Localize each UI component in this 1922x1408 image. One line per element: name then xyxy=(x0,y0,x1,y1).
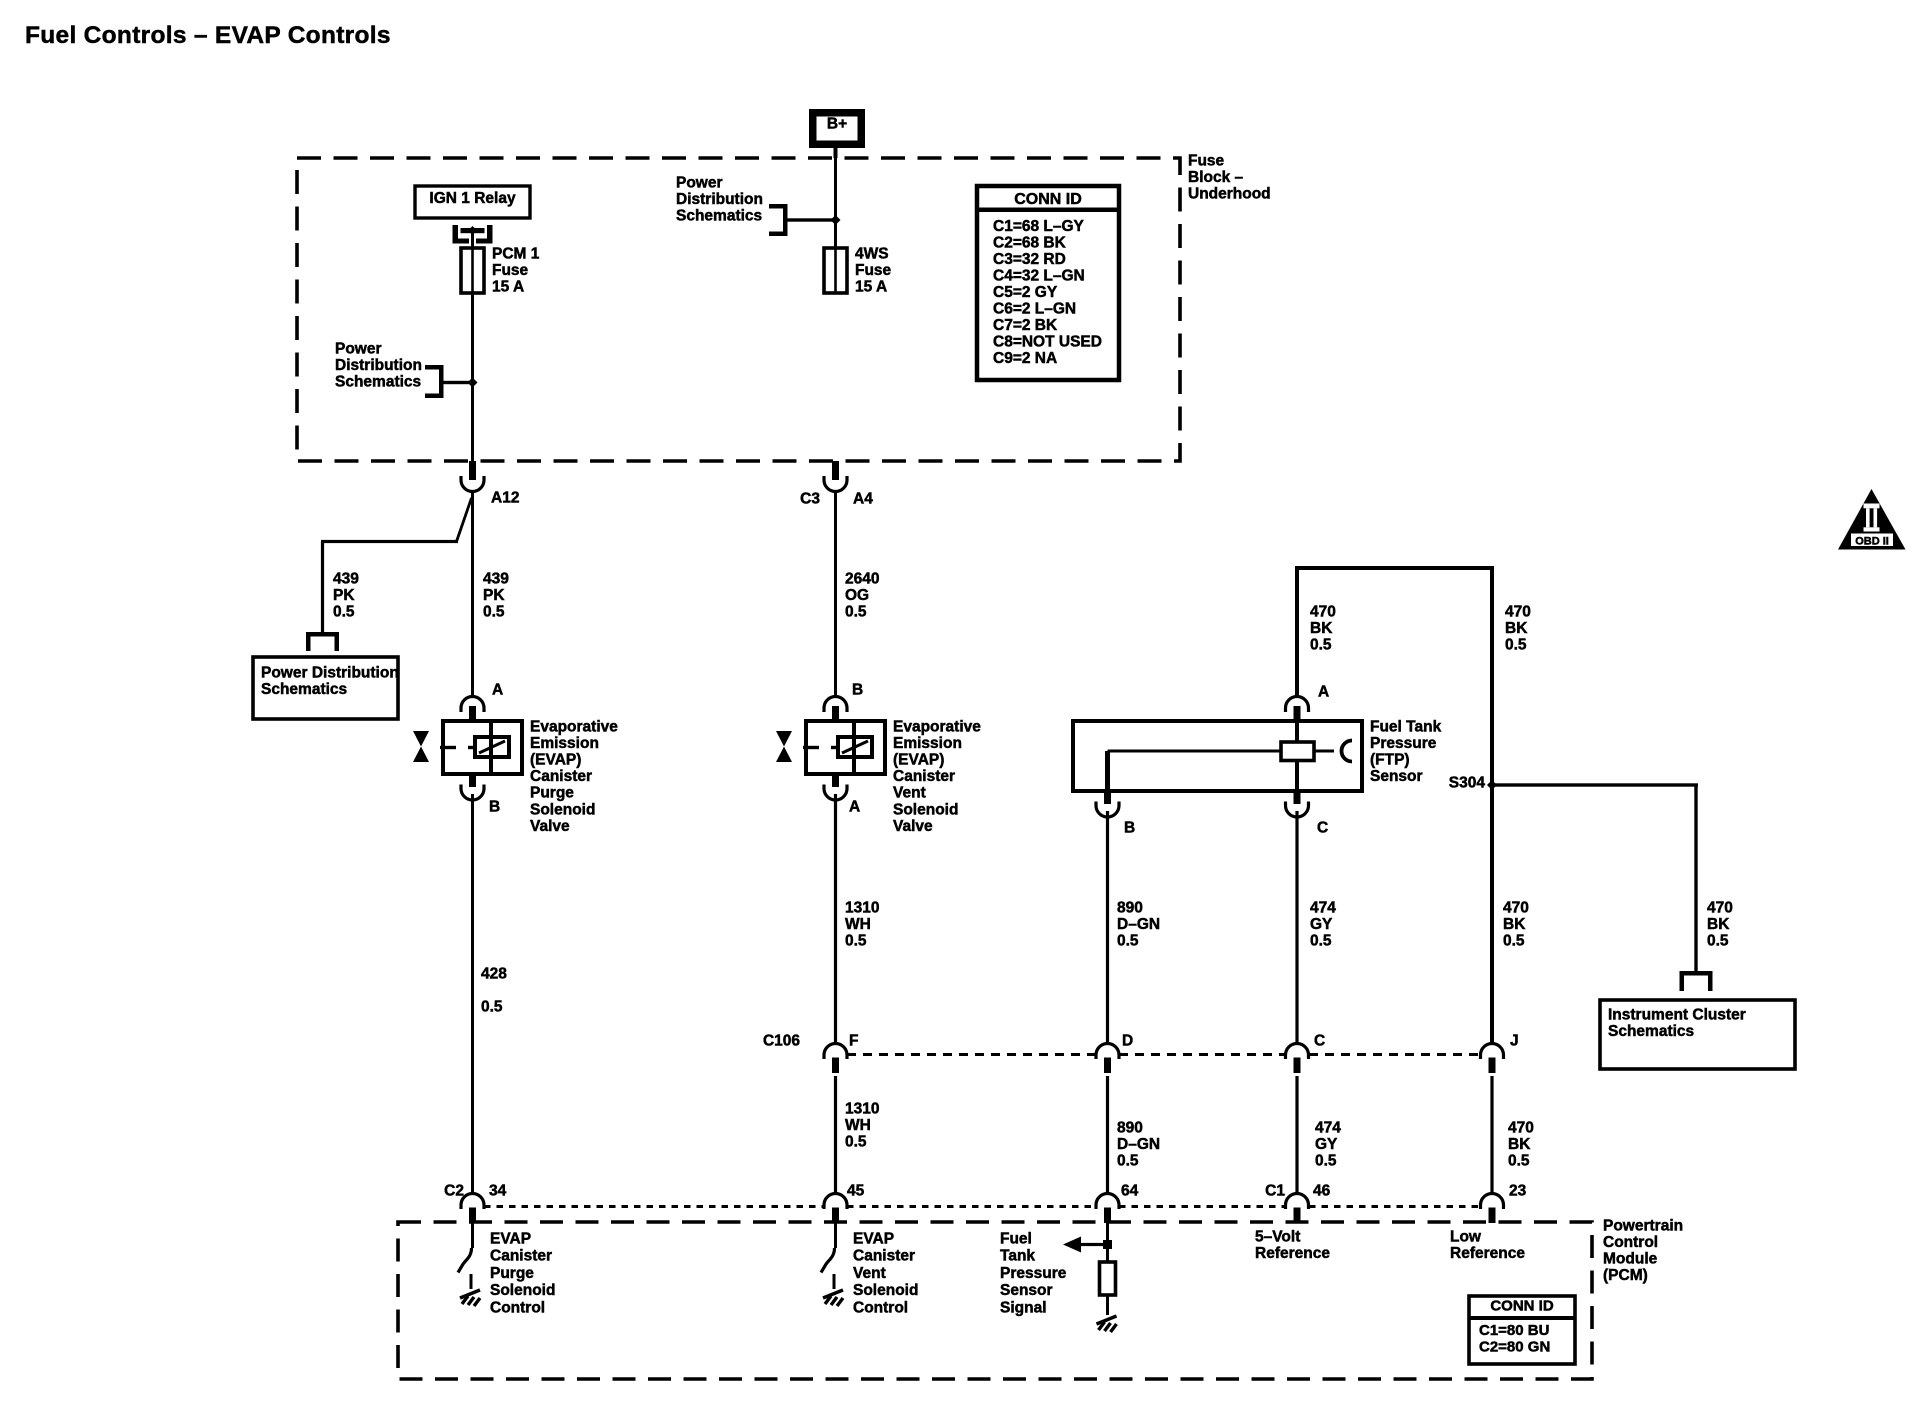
svg-text:64: 64 xyxy=(1121,1182,1139,1199)
svg-text:C8=NOT USED: C8=NOT USED xyxy=(993,334,1102,351)
svg-text:Distribution: Distribution xyxy=(676,191,763,208)
svg-text:C9=2 NA: C9=2 NA xyxy=(993,350,1057,367)
svg-text:C2=68 BK: C2=68 BK xyxy=(993,234,1067,251)
svg-text:Power: Power xyxy=(335,340,382,357)
svg-text:S304: S304 xyxy=(1449,774,1486,791)
svg-text:Solenoid: Solenoid xyxy=(530,801,595,818)
svg-text:D–GN: D–GN xyxy=(1117,1136,1160,1153)
svg-text:Evaporative: Evaporative xyxy=(530,718,618,735)
svg-text:Solenoid: Solenoid xyxy=(893,801,958,818)
svg-text:C2: C2 xyxy=(444,1182,464,1199)
svg-text:Distribution: Distribution xyxy=(335,357,422,374)
svg-text:1310: 1310 xyxy=(845,899,879,916)
svg-text:474: 474 xyxy=(1315,1119,1341,1136)
svg-text:B: B xyxy=(852,681,863,698)
svg-text:C3: C3 xyxy=(800,490,820,507)
svg-text:890: 890 xyxy=(1117,1119,1143,1136)
svg-text:Fuel: Fuel xyxy=(1000,1230,1032,1247)
svg-text:Emission: Emission xyxy=(530,735,599,752)
svg-text:C6=2 L–GN: C6=2 L–GN xyxy=(993,301,1076,318)
svg-text:C1=68 L–GY: C1=68 L–GY xyxy=(993,218,1085,235)
svg-text:(EVAP): (EVAP) xyxy=(893,752,944,769)
svg-text:PK: PK xyxy=(333,587,355,604)
svg-text:Canister: Canister xyxy=(490,1248,552,1265)
svg-text:470: 470 xyxy=(1505,603,1531,620)
svg-text:0.5: 0.5 xyxy=(1310,932,1332,949)
svg-text:5–Volt: 5–Volt xyxy=(1255,1228,1300,1245)
svg-text:Valve: Valve xyxy=(530,818,570,835)
svg-text:0.5: 0.5 xyxy=(1505,636,1527,653)
svg-text:Reference: Reference xyxy=(1255,1245,1330,1262)
svg-text:C5=2 GY: C5=2 GY xyxy=(993,284,1058,301)
svg-text:Purge: Purge xyxy=(530,785,574,802)
svg-text:Vent: Vent xyxy=(853,1265,886,1282)
svg-text:0.5: 0.5 xyxy=(1503,932,1525,949)
svg-text:0.5: 0.5 xyxy=(481,998,503,1015)
svg-text:46: 46 xyxy=(1313,1182,1331,1199)
svg-text:Schematics: Schematics xyxy=(676,207,762,224)
svg-text:BK: BK xyxy=(1503,916,1526,933)
svg-text:439: 439 xyxy=(483,570,509,587)
svg-text:45: 45 xyxy=(847,1182,865,1199)
svg-text:D–GN: D–GN xyxy=(1117,916,1160,933)
svg-text:0.5: 0.5 xyxy=(1310,636,1332,653)
svg-text:BK: BK xyxy=(1310,620,1333,637)
svg-text:GY: GY xyxy=(1310,916,1333,933)
svg-text:474: 474 xyxy=(1310,899,1336,916)
svg-text:Control: Control xyxy=(490,1300,545,1317)
svg-text:0.5: 0.5 xyxy=(483,603,505,620)
svg-text:0.5: 0.5 xyxy=(1315,1152,1337,1169)
svg-text:PCM 1: PCM 1 xyxy=(492,245,540,262)
svg-text:EVAP: EVAP xyxy=(853,1230,894,1247)
svg-text:B: B xyxy=(489,798,500,815)
svg-text:B+: B+ xyxy=(827,115,847,132)
svg-text:0.5: 0.5 xyxy=(1117,932,1139,949)
svg-text:Powertrain: Powertrain xyxy=(1603,1217,1683,1234)
svg-text:BK: BK xyxy=(1508,1136,1531,1153)
svg-text:Fuel Controls – EVAP Controls: Fuel Controls – EVAP Controls xyxy=(25,22,391,49)
svg-text:0.5: 0.5 xyxy=(845,932,867,949)
svg-text:Schematics: Schematics xyxy=(1608,1023,1694,1040)
svg-text:0.5: 0.5 xyxy=(845,603,867,620)
svg-text:WH: WH xyxy=(845,1117,871,1134)
svg-text:428: 428 xyxy=(481,965,507,982)
svg-text:EVAP: EVAP xyxy=(490,1230,531,1247)
svg-text:4WS: 4WS xyxy=(855,245,889,262)
svg-text:OG: OG xyxy=(845,587,869,604)
svg-text:C3=32 RD: C3=32 RD xyxy=(993,251,1066,268)
svg-text:Tank: Tank xyxy=(1000,1248,1035,1265)
svg-text:470: 470 xyxy=(1310,603,1336,620)
svg-text:(EVAP): (EVAP) xyxy=(530,752,581,769)
svg-text:CONN ID: CONN ID xyxy=(1490,1298,1554,1315)
svg-text:Fuse: Fuse xyxy=(492,262,529,279)
svg-text:0.5: 0.5 xyxy=(845,1133,867,1150)
svg-text:C1=80 BU: C1=80 BU xyxy=(1479,1322,1549,1339)
svg-text:890: 890 xyxy=(1117,899,1143,916)
svg-text:470: 470 xyxy=(1503,899,1529,916)
svg-text:Fuse: Fuse xyxy=(855,262,892,279)
svg-text:470: 470 xyxy=(1508,1119,1534,1136)
svg-text:23: 23 xyxy=(1509,1182,1527,1199)
svg-text:0.5: 0.5 xyxy=(1117,1152,1139,1169)
svg-text:J: J xyxy=(1510,1032,1519,1049)
svg-text:F: F xyxy=(849,1032,858,1049)
svg-text:Signal: Signal xyxy=(1000,1300,1047,1317)
svg-text:GY: GY xyxy=(1315,1136,1338,1153)
svg-text:(FTP): (FTP) xyxy=(1370,752,1410,769)
svg-text:Valve: Valve xyxy=(893,818,933,835)
svg-text:Underhood: Underhood xyxy=(1188,185,1271,202)
svg-text:Solenoid: Solenoid xyxy=(490,1282,555,1299)
svg-text:Power: Power xyxy=(676,174,723,191)
svg-text:Evaporative: Evaporative xyxy=(893,718,981,735)
svg-text:0.5: 0.5 xyxy=(333,603,355,620)
svg-text:Sensor: Sensor xyxy=(1370,768,1423,785)
svg-text:A12: A12 xyxy=(491,489,519,506)
svg-text:PK: PK xyxy=(483,587,505,604)
svg-text:15 A: 15 A xyxy=(855,278,887,295)
svg-text:D: D xyxy=(1122,1032,1133,1049)
svg-text:Solenoid: Solenoid xyxy=(853,1282,918,1299)
svg-text:C2=80 GN: C2=80 GN xyxy=(1479,1339,1550,1356)
svg-text:Canister: Canister xyxy=(853,1248,915,1265)
svg-text:Canister: Canister xyxy=(530,768,592,785)
svg-text:IGN 1 Relay: IGN 1 Relay xyxy=(429,190,516,207)
svg-text:Reference: Reference xyxy=(1450,1245,1525,1262)
svg-text:Low: Low xyxy=(1450,1228,1482,1245)
svg-text:A: A xyxy=(492,681,503,698)
svg-text:Schematics: Schematics xyxy=(335,373,421,390)
svg-text:Sensor: Sensor xyxy=(1000,1282,1053,1299)
svg-text:CONN ID: CONN ID xyxy=(1014,191,1082,208)
svg-text:A: A xyxy=(1318,683,1329,700)
svg-text:C4=32 L–GN: C4=32 L–GN xyxy=(993,268,1085,285)
svg-text:470: 470 xyxy=(1707,899,1733,916)
svg-text:B: B xyxy=(1124,819,1135,836)
svg-text:439: 439 xyxy=(333,570,359,587)
svg-text:Fuel Tank: Fuel Tank xyxy=(1370,718,1442,735)
svg-text:BK: BK xyxy=(1707,916,1730,933)
svg-text:Schematics: Schematics xyxy=(261,681,347,698)
svg-text:Pressure: Pressure xyxy=(1370,735,1437,752)
svg-text:C7=2 BK: C7=2 BK xyxy=(993,317,1058,334)
svg-text:0.5: 0.5 xyxy=(1707,932,1729,949)
svg-text:Pressure: Pressure xyxy=(1000,1265,1067,1282)
svg-text:Power Distribution: Power Distribution xyxy=(261,664,399,681)
svg-text:C: C xyxy=(1317,819,1328,836)
svg-text:34: 34 xyxy=(489,1182,507,1199)
svg-text:Control: Control xyxy=(1603,1234,1658,1251)
svg-text:1310: 1310 xyxy=(845,1100,879,1117)
svg-text:OBD II: OBD II xyxy=(1855,536,1889,548)
svg-text:BK: BK xyxy=(1505,620,1528,637)
svg-text:Vent: Vent xyxy=(893,785,926,802)
svg-text:A4: A4 xyxy=(853,490,873,507)
svg-text:WH: WH xyxy=(845,916,871,933)
svg-text:Block –: Block – xyxy=(1188,169,1244,186)
svg-text:C1: C1 xyxy=(1265,1182,1285,1199)
svg-text:Control: Control xyxy=(853,1300,908,1317)
svg-text:Purge: Purge xyxy=(490,1265,534,1282)
svg-text:A: A xyxy=(849,798,860,815)
svg-text:Canister: Canister xyxy=(893,768,955,785)
svg-text:15 A: 15 A xyxy=(492,278,524,295)
svg-text:0.5: 0.5 xyxy=(1508,1152,1530,1169)
svg-text:Fuse: Fuse xyxy=(1188,152,1225,169)
svg-text:(PCM): (PCM) xyxy=(1603,1267,1648,1284)
svg-text:C106: C106 xyxy=(763,1032,800,1049)
svg-text:Instrument Cluster: Instrument Cluster xyxy=(1608,1006,1746,1023)
svg-text:Module: Module xyxy=(1603,1250,1658,1267)
svg-text:Emission: Emission xyxy=(893,735,962,752)
svg-text:C: C xyxy=(1314,1032,1325,1049)
svg-text:2640: 2640 xyxy=(845,570,879,587)
